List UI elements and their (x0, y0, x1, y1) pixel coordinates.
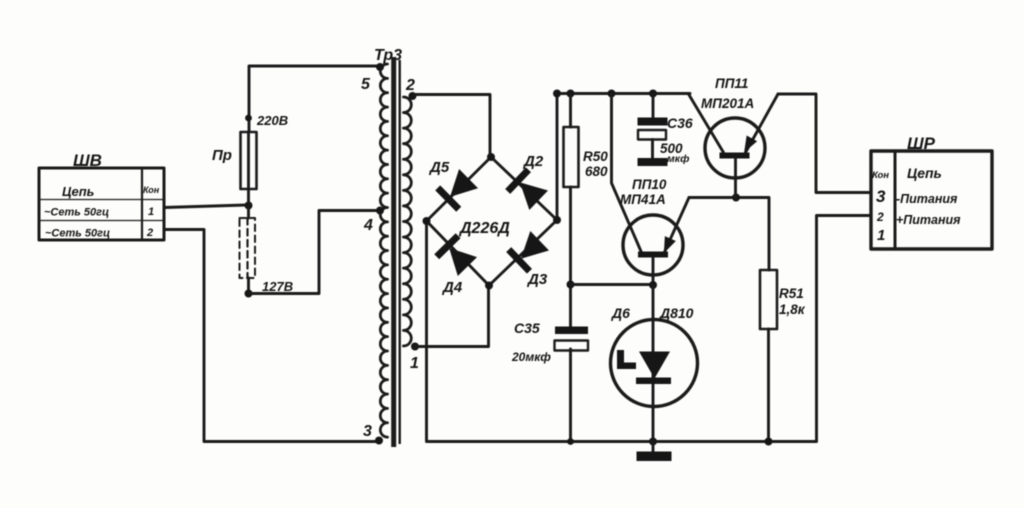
svg-text:Д4: Д4 (441, 279, 463, 296)
svg-text:МП201А: МП201А (701, 96, 754, 111)
svg-text:R50: R50 (583, 149, 608, 164)
node tap 1 (411, 343, 419, 351)
node tap 5 (376, 63, 384, 71)
node 220V tap (245, 115, 252, 122)
node R51 bottom (765, 438, 773, 446)
wire 220V riser to tap5 (249, 66, 380, 132)
svg-text:Пр: Пр (212, 147, 232, 164)
wire ПП10 collector riser (612, 94, 642, 253)
svg-text:Тр3: Тр3 (374, 47, 402, 64)
svg-text:Д6: Д6 (611, 305, 630, 321)
svg-text:-Питания: -Питания (896, 192, 958, 206)
svg-text:Цепь: Цепь (62, 184, 94, 199)
wire pin2 to tap3 (164, 230, 376, 442)
svg-text:Кон: Кон (872, 170, 889, 181)
wire tap1 to bridge bottom (415, 287, 489, 347)
svg-text:2: 2 (146, 227, 153, 239)
wire tap2 to bridge top (414, 95, 491, 156)
svg-text:~Сеть 50гц: ~Сеть 50гц (44, 207, 109, 219)
node bridge bottom (485, 282, 493, 290)
diode Д3 (506, 230, 550, 274)
svg-text:2: 2 (876, 210, 884, 224)
node rail-E (553, 90, 561, 98)
svg-text:С36: С36 (667, 115, 693, 131)
node zener bottom (649, 438, 657, 446)
svg-text:Д226Д: Д226Д (458, 220, 510, 237)
node tap 2 (409, 92, 417, 100)
wire ПП11 emitter to pin3 (778, 94, 871, 193)
svg-text:R51: R51 (779, 286, 804, 301)
connector ШВ (39, 151, 164, 240)
svg-text:Цепь: Цепь (907, 165, 942, 181)
svg-text:мкф: мкф (667, 153, 689, 165)
node bridge left (423, 217, 431, 225)
node bridge top (487, 153, 495, 161)
ground bar under C36 (638, 158, 668, 166)
transformer secondary winding (404, 97, 412, 346)
node R50/C35/base junction (567, 281, 575, 289)
capacitor C35 (511, 320, 588, 442)
svg-text:ПП10: ПП10 (632, 177, 667, 192)
wire bridge right output riser (556, 94, 559, 220)
transformer primary winding (380, 64, 387, 437)
ground (637, 442, 672, 462)
wire pin1 to fuse junction (164, 205, 246, 208)
node ПП11 base junction (732, 194, 740, 202)
diode Д2 (505, 167, 549, 211)
wire emitter ПП10 to base ПП11 to R51 (689, 198, 769, 271)
svg-text:Д810: Д810 (659, 305, 694, 321)
node fuse bottom junction (245, 202, 253, 210)
svg-text:ШР: ШР (907, 134, 936, 153)
svg-text:2: 2 (405, 77, 415, 94)
node 127V tap (245, 290, 253, 298)
svg-text:3: 3 (363, 423, 372, 440)
svg-text:220В: 220В (256, 113, 288, 128)
wire bridge left output down to bottom rail (425, 222, 428, 442)
svg-text:ПП11: ПП11 (715, 76, 748, 91)
wire bottom rail (428, 216, 872, 442)
wire fuse junction down (247, 189, 250, 218)
node tap 3 (375, 437, 383, 445)
svg-text:4: 4 (363, 217, 373, 234)
transformer core (394, 57, 400, 447)
fuse 127V (dashed reserve) (240, 218, 256, 278)
svg-text:1,8к: 1,8к (779, 302, 806, 317)
wire 127V to tap4 (249, 211, 378, 294)
svg-text:Кон: Кон (143, 185, 160, 195)
svg-text:1: 1 (148, 206, 154, 218)
svg-text:127В: 127В (262, 279, 293, 294)
node bridge right (553, 216, 561, 224)
svg-text:3: 3 (876, 187, 886, 206)
resistor R51 (760, 270, 806, 442)
svg-text:680: 680 (585, 164, 608, 179)
svg-text:20мкф: 20мкф (511, 350, 551, 364)
fuse Пр (212, 132, 257, 189)
node rail-collector ПП10 (608, 90, 616, 98)
svg-text:~Сеть 50гц: ~Сеть 50гц (45, 228, 110, 240)
svg-text:5: 5 (361, 76, 371, 93)
node rail-R50 (567, 90, 575, 98)
svg-text:1: 1 (410, 355, 419, 372)
diode Д4 (434, 233, 478, 277)
node ПП10 base junction (649, 281, 657, 289)
svg-text:С35: С35 (514, 320, 540, 336)
node C35 bottom (567, 438, 574, 445)
wire junction to ПП10 base (571, 283, 652, 286)
svg-text:МП41А: МП41А (620, 192, 666, 207)
wire dashed fuse bottom (247, 278, 250, 294)
capacitor C36 (638, 94, 693, 166)
node rail-C36 (649, 90, 657, 98)
resistor R50 (564, 94, 609, 327)
wire top rail (557, 92, 690, 95)
bridge arms (427, 157, 558, 286)
svg-text:+Питания: +Питания (896, 213, 961, 227)
transistor ПП11 МП201А (689, 76, 779, 198)
node tap 4 (376, 207, 384, 215)
diode Д5 (435, 168, 479, 212)
zener diode Д6 Д810 (611, 286, 698, 442)
svg-text:ШВ: ШВ (73, 151, 102, 170)
connector ШР (871, 134, 992, 249)
transistor ПП10 МП41А (620, 177, 689, 286)
svg-text:Д2: Д2 (522, 153, 544, 170)
svg-text:1: 1 (877, 227, 885, 244)
svg-text:Д3: Д3 (526, 271, 548, 288)
svg-text:Д5: Д5 (428, 159, 450, 176)
